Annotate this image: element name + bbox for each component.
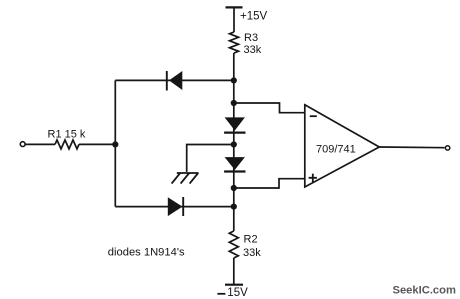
svg-text:33k: 33k: [244, 44, 262, 56]
junction node C: [231, 141, 237, 147]
svg-text:709/741: 709/741: [316, 144, 356, 156]
diode D2 (upper clamp, pointing down): [224, 117, 245, 132]
diode D4 (bottom, pointing right): [168, 197, 183, 216]
wire input to R1: [26, 143, 56, 145]
svg-text:diodes 1N914's: diodes 1N914's: [108, 247, 185, 259]
-15V supply bar: [225, 284, 243, 286]
svg-text:SeekIC.com: SeekIC.com: [393, 284, 456, 296]
wire +15V to R3: [233, 8, 235, 32]
resistor R1: [55, 140, 79, 149]
minus sign of -15V label: [217, 293, 225, 295]
junction node F: [112, 141, 118, 147]
diode D3 (lower clamp, pointing down): [224, 157, 245, 171]
wire R1 to node: [79, 143, 115, 145]
wire main rail: [233, 53, 235, 231]
svg-text:15V: 15V: [227, 287, 248, 299]
wire bottom branch: [115, 206, 234, 208]
wire node to ground: [187, 145, 234, 172]
ground: [172, 173, 199, 184]
junction node B: [231, 100, 237, 106]
resistor R2: [229, 231, 238, 258]
junction node A: [231, 77, 237, 83]
svg-text:33k: 33k: [243, 247, 261, 259]
svg-text:R2: R2: [244, 234, 258, 246]
wire top branch: [115, 79, 234, 81]
wire op-amp output: [379, 146, 444, 149]
wire R2 to -15V: [233, 258, 235, 284]
junction node E: [231, 204, 237, 210]
svg-text:R3: R3: [244, 32, 258, 44]
op-amp U1: [305, 105, 380, 187]
junction node D: [231, 185, 237, 191]
resistor R3: [230, 32, 239, 53]
diode D1 (top, pointing left): [167, 71, 183, 91]
+15V supply bar: [226, 6, 243, 8]
wire node to non-inverting input: [234, 179, 305, 188]
svg-text:+15V: +15V: [240, 11, 268, 23]
op-amp plus pin mark: [309, 174, 317, 182]
wire node to inverting input: [234, 103, 305, 113]
wire left rail: [114, 80, 116, 206]
op-amp minus pin mark: [310, 115, 317, 117]
output terminal: [445, 146, 449, 150]
input terminal: [20, 142, 25, 147]
svg-text:R1 15 k: R1 15 k: [48, 129, 86, 141]
